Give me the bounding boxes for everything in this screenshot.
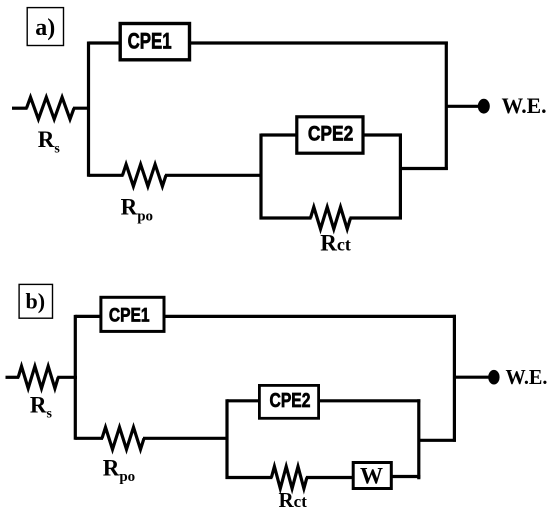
wire: Rs to input node (panel b)	[57, 376, 77, 379]
svg-text:Rct: Rct	[279, 488, 308, 512]
resistor Rs (panel b)	[18, 366, 58, 388]
svg-text:CPE2: CPE2	[308, 122, 354, 146]
W.E. terminal dot (panel b)	[488, 370, 499, 385]
svg-text:W.E.: W.E.	[502, 93, 547, 118]
wire: inner loop to right rail connector (panel a)	[400, 167, 447, 170]
svg-text:Rs: Rs	[38, 127, 61, 156]
wire: Rct to Warburg box (panel b)	[306, 476, 353, 479]
W.E. terminal dot (panel a)	[478, 99, 490, 114]
svg-text:W.E.: W.E.	[506, 365, 548, 389]
wire: CPE1 to right rail (panel b)	[165, 315, 456, 318]
svg-text:W: W	[360, 464, 383, 489]
svg-text:Rs: Rs	[30, 393, 53, 422]
CPE1 box (panel b)	[101, 297, 164, 331]
wire: left lead into Rs (panel b)	[6, 376, 20, 379]
panel a label box	[27, 8, 63, 46]
svg-text:Rpo: Rpo	[121, 195, 153, 225]
wire: into CPE2 (panel a)	[261, 133, 298, 136]
wire: inner-left vertical (panel a)	[259, 134, 262, 220]
resistor Rpo (panel a)	[123, 164, 167, 186]
svg-text:CPE1: CPE1	[128, 29, 172, 54]
wire: inner bottom branch into Rct (panel a)	[260, 216, 312, 219]
wire: right vertical rail (panel a)	[445, 42, 448, 171]
svg-text:CPE2: CPE2	[270, 390, 311, 412]
wire: inner bottom branch into Rct (panel b)	[226, 476, 273, 479]
CPE1 box (panel a)	[120, 24, 189, 60]
svg-text:a): a)	[35, 15, 55, 41]
wire: Rct to inner-right vertical (panel a)	[350, 216, 403, 219]
resistor Rct (panel a)	[311, 207, 351, 229]
wire: left lead into Rs (panel a)	[12, 107, 28, 110]
CPE2 box (panel b)	[259, 385, 318, 418]
wire: CPE2 to inner-right vertical (panel b)	[318, 399, 420, 402]
wire: inner loop to right rail connector (panel b)	[419, 439, 456, 442]
svg-text:Rpo: Rpo	[103, 456, 135, 485]
wire: CPE1 to right rail (panel a)	[191, 41, 448, 44]
resistor Rs (panel a)	[27, 97, 75, 119]
wire: left vertical rail (panel a)	[87, 42, 90, 177]
wire: inner-right vertical (panel a)	[399, 134, 402, 220]
wire: bottom branch into Rpo (panel b)	[75, 437, 103, 440]
wire: into CPE2 (panel b)	[227, 399, 260, 402]
Warburg element W box (panel b)	[353, 463, 391, 489]
wire: inner-left vertical (panel b)	[225, 399, 228, 479]
wire: top branch into CPE1 (panel b)	[75, 315, 101, 318]
svg-text:b): b)	[26, 288, 46, 313]
panel b label box	[19, 284, 52, 318]
wire: W box to inner-right vertical (panel b)	[391, 475, 420, 478]
wire: inner-right vertical (panel b)	[417, 399, 420, 479]
wire: Rpo to inner loop (panel a)	[165, 174, 263, 177]
wire: stub to W.E. terminal (panel b)	[454, 376, 488, 379]
wire: Rs to input node (panel a)	[73, 107, 90, 110]
wire: right vertical rail (panel b)	[453, 315, 456, 442]
resistor Rct (panel b)	[271, 467, 307, 489]
svg-text:CPE1: CPE1	[109, 305, 150, 326]
wire: top branch into CPE1 (panel a)	[89, 41, 120, 44]
wire: left vertical rail (panel b)	[74, 315, 77, 440]
wire: Rpo to inner loop (panel b)	[143, 437, 229, 440]
svg-text:Rct: Rct	[320, 231, 351, 256]
wire: bottom branch into Rpo (panel a)	[89, 174, 124, 177]
wire: stub to W.E. terminal (panel a)	[446, 105, 478, 108]
CPE2 box (panel a)	[297, 117, 363, 153]
wire: CPE2 to inner-right vertical (panel a)	[363, 133, 403, 136]
resistor Rpo (panel b)	[102, 427, 144, 449]
